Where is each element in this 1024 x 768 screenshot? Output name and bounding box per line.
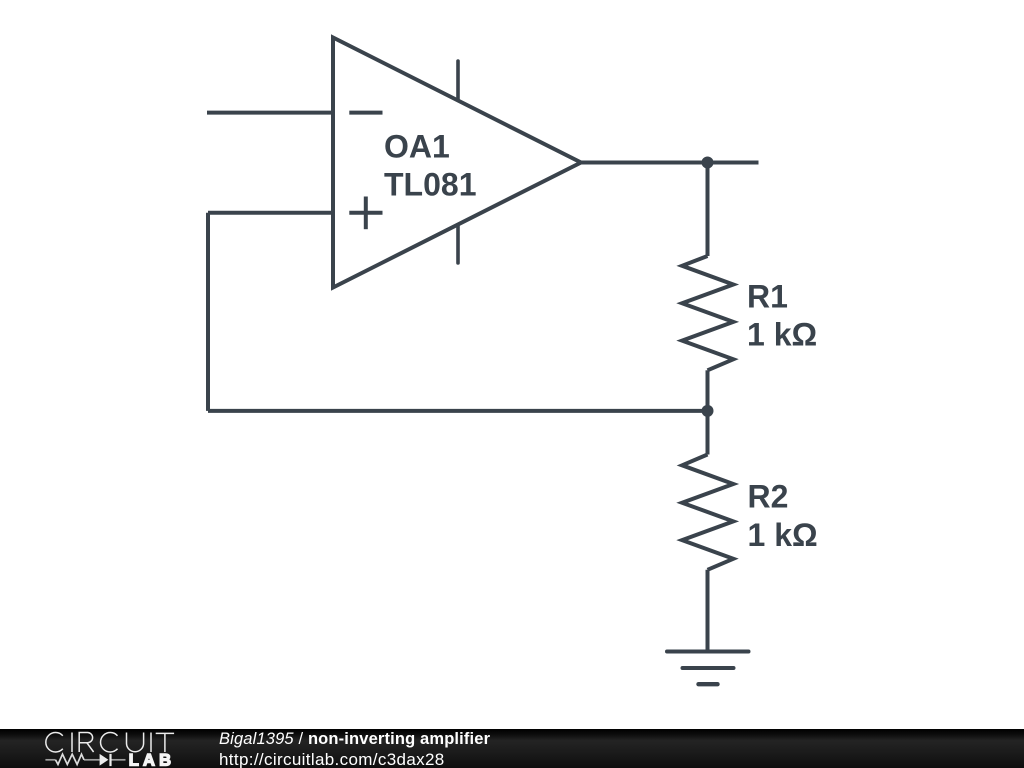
CircuitLab logo CIRCUIT <box>46 732 174 752</box>
ground <box>667 652 749 685</box>
svg-text:Bigal1395 / non-inverting ampl: Bigal1395 / non-inverting amplifier <box>219 730 491 748</box>
svg-text:LAB: LAB <box>129 752 176 768</box>
CircuitLab logo small schematic <box>45 759 125 761</box>
svg-text:OA1: OA1 <box>384 129 450 165</box>
plus symbol <box>349 211 382 215</box>
svg-text:R1: R1 <box>747 279 788 315</box>
resistor R1 <box>682 256 733 370</box>
footer bar <box>0 729 1024 768</box>
svg-text:R2: R2 <box>748 479 789 515</box>
wire feedback vertical <box>206 213 210 411</box>
CircuitLab logo diode <box>100 754 109 766</box>
wire non-inverting input <box>208 211 333 215</box>
wire node2 to R2 <box>706 411 710 455</box>
minus symbol <box>349 111 382 115</box>
svg-text:http://circuitlab.com/c3dax28: http://circuitlab.com/c3dax28 <box>219 750 445 768</box>
node feedback junction <box>702 405 714 417</box>
wire node1 to R1 <box>706 163 710 257</box>
pin V+ top <box>456 61 460 99</box>
wire R1 to node2 <box>706 370 710 411</box>
resistor R2 <box>682 455 733 570</box>
pin V- bottom <box>456 225 460 263</box>
CircuitLab logo zigzag <box>56 754 85 764</box>
node output junction <box>702 157 714 169</box>
wire output <box>581 161 759 165</box>
svg-text:1 kΩ: 1 kΩ <box>748 517 818 553</box>
wire R2 to ground <box>706 570 710 652</box>
svg-text:TL081: TL081 <box>384 167 476 203</box>
svg-text:1 kΩ: 1 kΩ <box>747 317 817 353</box>
op-amp U1 (OA1 TL081) <box>333 38 581 288</box>
wire feedback horizontal <box>208 409 708 413</box>
wire inverting input <box>207 111 333 115</box>
